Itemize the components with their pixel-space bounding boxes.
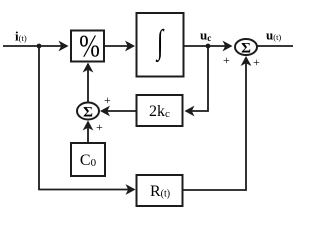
wire: R(t) output right and up into S1 (183, 58, 247, 191)
wire: bottom rail into R(t) block (38, 189, 134, 191)
wire: % output to integrator (104, 45, 134, 47)
block %: divider U1 (71, 31, 104, 62)
svg-text:Σ: Σ (241, 41, 251, 57)
svg-text:+: + (223, 53, 230, 67)
summer S2 (lower sigma) (77, 103, 99, 120)
block integrator U2 (137, 13, 184, 77)
block C0 (71, 143, 105, 176)
svg-text:+: + (104, 93, 111, 107)
svg-text:+: + (96, 120, 103, 134)
wire: input i(t) horizontal into % block (3, 45, 67, 47)
block R(t) (137, 175, 183, 206)
summer S1 (upper sigma) (235, 39, 257, 55)
wire: integrator output to uc node and summer S1 (184, 45, 232, 47)
wire: C0 output up into S2 (87, 122, 89, 143)
wire: S1 output u(t) (257, 45, 293, 47)
node: input takeoff junction (37, 44, 42, 49)
wire: 2kc output left into summer S2 (102, 110, 137, 112)
svg-text:Σ: Σ (83, 105, 93, 121)
wire: input node down to bottom rail (38, 46, 40, 190)
block 2kc (137, 95, 183, 126)
wire: S2 output up into % block (87, 64, 89, 103)
svg-text:+: + (253, 55, 260, 69)
node uc (206, 44, 211, 49)
wire: uc feedback down and left into 2kc (186, 46, 208, 111)
svg-text:%: % (79, 29, 100, 65)
